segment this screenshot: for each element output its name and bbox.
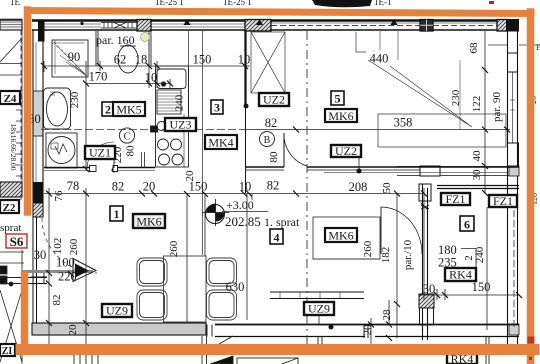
svg-text:UZ2: UZ2 [263, 93, 285, 107]
svg-text:20: 20 [184, 170, 196, 182]
svg-text:UZ9: UZ9 [308, 302, 330, 316]
svg-text:10: 10 [239, 180, 252, 194]
svg-text:UZ2: UZ2 [335, 144, 357, 158]
svg-text:80: 80 [268, 151, 280, 163]
svg-text:28: 28 [381, 309, 393, 321]
svg-text:68: 68 [468, 42, 480, 54]
svg-text:S6: S6 [10, 234, 24, 249]
svg-text:Z2: Z2 [3, 202, 16, 214]
svg-text:102: 102 [52, 238, 64, 255]
svg-text:240: 240 [174, 94, 186, 111]
svg-text:RK4: RK4 [449, 268, 472, 282]
svg-text:FZ1: FZ1 [493, 194, 513, 208]
svg-text:5: 5 [335, 92, 341, 106]
svg-text:E: E [536, 43, 540, 52]
svg-text:18x16.66/28.00: 18x16.66/28.00 [9, 123, 18, 170]
svg-text:2: 2 [105, 103, 111, 117]
svg-text:Z4: Z4 [4, 93, 17, 105]
svg-text:440: 440 [370, 52, 389, 66]
svg-text:30: 30 [423, 282, 436, 296]
svg-text:3: 3 [214, 101, 220, 115]
svg-text:150: 150 [193, 53, 212, 67]
svg-text:UZ1: UZ1 [89, 146, 111, 160]
svg-text:82: 82 [265, 116, 278, 130]
svg-text:50: 50 [381, 182, 393, 194]
svg-text:MK6: MK6 [328, 109, 353, 123]
svg-text:MK5: MK5 [116, 103, 141, 117]
svg-text:18: 18 [135, 53, 148, 67]
svg-text:62: 62 [114, 53, 127, 67]
svg-text:sprat: sprat [0, 222, 21, 234]
svg-text:82: 82 [112, 180, 125, 194]
svg-text:UZ9: UZ9 [106, 304, 128, 318]
svg-text:MK6: MK6 [136, 215, 161, 229]
svg-text:220: 220 [58, 270, 77, 284]
svg-text:FZ1: FZ1 [445, 192, 465, 206]
svg-text:100: 100 [56, 256, 75, 270]
svg-text:82: 82 [267, 179, 280, 193]
svg-text:20: 20 [362, 324, 374, 336]
svg-text:C: C [124, 132, 131, 143]
svg-text:20: 20 [67, 324, 79, 336]
svg-text:MK4: MK4 [208, 136, 233, 150]
svg-text:78: 78 [67, 179, 80, 193]
svg-text:182: 182 [380, 247, 392, 264]
svg-text:202.85: 202.85 [225, 214, 261, 229]
svg-text:630: 630 [226, 280, 245, 294]
svg-text:B: B [264, 135, 271, 146]
svg-text:260: 260 [168, 240, 180, 257]
svg-text:20: 20 [143, 180, 156, 194]
svg-text:358: 358 [394, 116, 413, 130]
svg-text:170: 170 [89, 70, 108, 84]
svg-text:30: 30 [34, 248, 47, 262]
svg-text:1E-25 1: 1E-25 1 [155, 0, 184, 7]
svg-text:par./10: par./10 [402, 239, 414, 270]
svg-text:80: 80 [125, 145, 137, 157]
svg-text:6: 6 [464, 218, 470, 232]
svg-text:par. 160: par. 160 [96, 33, 135, 47]
svg-text:40: 40 [471, 150, 483, 162]
svg-text:+3.00: +3.00 [226, 198, 254, 212]
svg-text:122: 122 [471, 96, 483, 113]
svg-text:MK6: MK6 [328, 229, 353, 243]
svg-text:30: 30 [471, 169, 483, 181]
svg-text:1E: 1E [10, 0, 21, 7]
svg-text:260: 260 [68, 238, 80, 255]
svg-text:1E-25 1: 1E-25 1 [223, 0, 252, 7]
svg-text:76: 76 [53, 190, 65, 202]
svg-text:230: 230 [450, 89, 462, 106]
svg-text:par. 90: par. 90 [491, 92, 503, 122]
svg-text:82: 82 [51, 295, 63, 306]
svg-text:1E-1: 1E-1 [374, 0, 392, 7]
svg-text:10: 10 [238, 53, 251, 67]
svg-text:UZ3: UZ3 [170, 118, 192, 132]
svg-text:1: 1 [114, 207, 120, 221]
svg-text:ZI: ZI [2, 346, 13, 357]
svg-text:208: 208 [349, 180, 368, 194]
svg-text:10: 10 [145, 71, 158, 85]
svg-text:4: 4 [274, 231, 280, 245]
svg-text:260: 260 [362, 240, 374, 257]
svg-text:230: 230 [69, 91, 81, 108]
svg-text:90: 90 [68, 50, 81, 64]
svg-text:1. sprat: 1. sprat [264, 215, 300, 229]
